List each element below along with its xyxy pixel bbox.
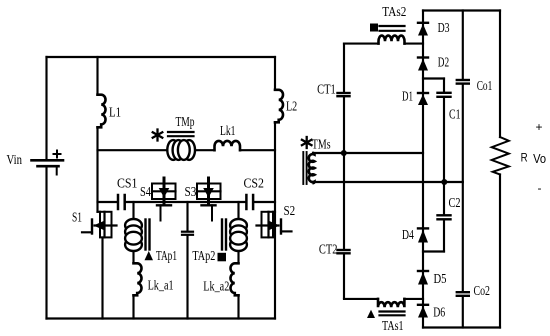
- resistor R: [492, 137, 509, 175]
- wire TAs1 right lead: [404, 298, 423, 300]
- svg-text:R: R: [521, 153, 528, 165]
- transformer TMs winding: [309, 153, 315, 183]
- wire CT line between dot and CT2: [343, 153, 345, 249]
- svg-text:S3: S3: [185, 184, 197, 199]
- svg-text:TAp1: TAp1: [156, 248, 177, 263]
- wire right vertical lower: [274, 122, 276, 318]
- svg-text:C2: C2: [449, 195, 461, 210]
- transformer TAs1 winding: [378, 299, 404, 307]
- wire mid rail primary: [98, 149, 215, 151]
- svg-text:D3: D3: [438, 20, 450, 35]
- capacitor CT2: [338, 250, 350, 253]
- wire CT2 to TAs1 winding: [344, 298, 378, 300]
- wire bottom rail right circuit: [423, 326, 500, 328]
- diode D5: [418, 271, 428, 285]
- wire center capacitor branch lower: [186, 236, 188, 319]
- transformer TMp core: [168, 132, 194, 136]
- wire L1 branch upper: [96, 57, 98, 95]
- svg-text:Lk1: Lk1: [220, 123, 236, 138]
- wire C2 branch horizontal: [423, 250, 444, 252]
- wire Lk_a2 to bottom rail: [237, 295, 239, 318]
- svg-text:CS2: CS2: [244, 176, 265, 191]
- wire center capacitor branch upper: [186, 202, 188, 231]
- transformer TAs1 core: [380, 312, 405, 316]
- wire CS rail segment 1: [98, 201, 117, 203]
- diode D3: [418, 23, 428, 36]
- wire TMs bottom lead: [313, 181, 463, 183]
- svg-text:Lk_a2: Lk_a2: [203, 279, 229, 294]
- junction dot TMs top / CT line: [341, 150, 347, 156]
- capacitor Co2: [457, 292, 469, 296]
- inductor L1: [98, 95, 106, 128]
- svg-text:+: +: [536, 120, 543, 134]
- svg-text:C1: C1: [449, 107, 461, 122]
- inductor Lk_a1: [134, 263, 142, 295]
- inductor Lk1: [215, 141, 241, 150]
- transformer TMs core: [303, 152, 306, 184]
- svg-text:S4: S4: [140, 184, 151, 199]
- capacitor CT1: [338, 93, 350, 96]
- svg-text:L1: L1: [109, 105, 121, 120]
- transformer TMp winding: [167, 140, 195, 160]
- svg-text:D5: D5: [434, 271, 447, 286]
- wire C1 top lead: [443, 79, 445, 92]
- svg-text:Co2: Co2: [474, 283, 491, 298]
- capacitor Co1: [457, 80, 469, 84]
- mosfet S1: [82, 212, 117, 238]
- svg-text:-: -: [538, 181, 542, 195]
- wire R line upper: [499, 11, 501, 138]
- transformer TAp1 core: [146, 220, 150, 250]
- polarity triangle TAp1: [145, 251, 154, 260]
- wire TAs2 right lead: [405, 43, 424, 45]
- mosfet S2: [257, 212, 292, 238]
- wire TAp1 to Lk_a1: [132, 252, 134, 263]
- wire top rail left circuit: [47, 56, 276, 58]
- transformer TAs2 winding: [379, 36, 405, 44]
- wire CT1 upper segment: [343, 44, 345, 92]
- wire S1 source to bottom rail: [101, 237, 103, 318]
- svg-text:S2: S2: [284, 203, 296, 218]
- polarity square TAs2: [370, 24, 378, 32]
- wire TMs top lead: [313, 152, 423, 154]
- svg-text:D6: D6: [433, 304, 445, 319]
- svg-text:TAs1: TAs1: [382, 318, 404, 333]
- transformer TAs2 core: [380, 26, 405, 31]
- wire CS rail segment 3: [254, 201, 275, 203]
- wire TAp2 top lead: [237, 202, 239, 220]
- svg-text:TMp: TMp: [176, 114, 195, 129]
- wire Co line lower: [462, 297, 464, 328]
- wire Lk_a1 to bottom rail: [132, 295, 134, 318]
- svg-text:TMs: TMs: [312, 137, 331, 152]
- polarity square TAp2: [218, 253, 227, 261]
- svg-text:TAp2: TAp2: [192, 248, 215, 263]
- wire mid rail after Lk1: [240, 149, 275, 151]
- polarity triangle TAs1: [367, 310, 375, 318]
- wire diode line: [422, 11, 424, 328]
- wire bottom rail left circuit: [47, 317, 276, 319]
- transformer TAp2 winding: [230, 219, 247, 251]
- svg-text:CS1: CS1: [117, 176, 138, 191]
- wire R line lower: [499, 175, 501, 328]
- wire CT2 lower segment: [343, 255, 345, 299]
- svg-text:CT1: CT1: [317, 81, 336, 96]
- svg-text:D1: D1: [402, 88, 413, 103]
- diode D1: [418, 93, 428, 105]
- svg-text:Co1: Co1: [477, 78, 493, 93]
- svg-text:Vo: Vo: [533, 152, 546, 166]
- diode D4: [418, 228, 428, 242]
- svg-text:D4: D4: [402, 227, 414, 242]
- wire C line C1 to dot to C2: [443, 98, 445, 215]
- wire TAp2 to Lk_a2: [237, 252, 239, 263]
- svg-text:TAs2: TAs2: [382, 4, 406, 19]
- capacitor CS2: [246, 195, 253, 209]
- wire C1 branch horizontal: [423, 77, 444, 79]
- inductor Lk_a2: [231, 263, 239, 295]
- diode D6: [418, 305, 428, 318]
- transformer TAp1 winding: [125, 219, 142, 251]
- capacitor CS1: [118, 195, 125, 209]
- svg-text:Lk_a1: Lk_a1: [148, 278, 174, 293]
- mosfet S3: [197, 178, 221, 221]
- wire TAp1 top lead: [132, 202, 134, 220]
- wire left vertical below battery: [45, 167, 47, 319]
- wire Co line upper: [462, 11, 464, 79]
- svg-text:S1: S1: [72, 210, 82, 225]
- wire C2 bottom lead: [443, 220, 445, 251]
- svg-text:CT2: CT2: [319, 242, 338, 257]
- capacitor center (unlabeled): [182, 232, 193, 235]
- polarity star TMs: [302, 137, 312, 148]
- junction dot TMs bottom / C line: [441, 179, 447, 185]
- wire right vertical upper (to L2): [274, 57, 276, 90]
- wire L1 branch lower to S1: [96, 127, 98, 212]
- wire CS rail segment 2: [126, 201, 245, 203]
- capacitor C2: [438, 215, 451, 219]
- svg-text:L2: L2: [286, 99, 297, 114]
- transformer TAp2 core: [222, 220, 226, 250]
- diode D2: [418, 58, 428, 71]
- svg-text:D2: D2: [438, 54, 449, 69]
- wire left vertical above battery: [45, 57, 47, 159]
- inductor L2: [275, 90, 283, 123]
- wire TAs2 left lead: [344, 43, 379, 45]
- wire CT1 lower segment to dot: [343, 97, 345, 153]
- wire top rail right circuit: [423, 9, 500, 11]
- svg-text:Vin: Vin: [7, 152, 23, 167]
- battery Vin: [32, 160, 64, 166]
- mosfet S4: [152, 178, 176, 221]
- wire Co line middle: [462, 85, 464, 292]
- capacitor C1: [438, 93, 451, 97]
- polarity star TMp: [153, 130, 163, 141]
